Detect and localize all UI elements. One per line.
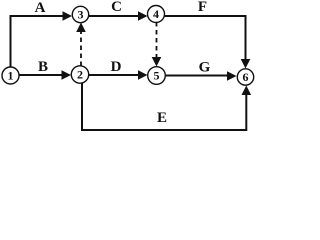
svg-text:4: 4	[153, 7, 159, 21]
node 5	[148, 67, 166, 85]
wire edge E (node 2 down, right along bottom, up to node 6)	[82, 84, 251, 131]
wire edge C (node 3 to node 4)	[89, 11, 148, 21]
node 3	[72, 6, 88, 22]
svg-text:6: 6	[243, 70, 249, 84]
svg-text:C: C	[111, 0, 122, 15]
dashed dummy wire node 4 to node 5	[152, 22, 162, 67]
svg-text:A: A	[35, 0, 46, 16]
svg-text:2: 2	[77, 68, 83, 82]
wire edge G (node 5 to node 6)	[166, 71, 237, 81]
svg-text:G: G	[199, 60, 211, 76]
node 2	[71, 66, 88, 83]
svg-text:F: F	[198, 0, 207, 15]
svg-text:B: B	[38, 59, 48, 75]
node 4	[148, 6, 165, 23]
svg-text:3: 3	[78, 8, 84, 22]
wire edge B (node 1 to node 2)	[20, 70, 72, 80]
svg-text:5: 5	[154, 69, 160, 83]
svg-text:D: D	[111, 59, 122, 75]
wire edge D (node 2 to node 5)	[89, 70, 148, 80]
wire edge A (node 1 up and right to node 3)	[11, 11, 73, 68]
node 6	[237, 69, 253, 85]
svg-text:1: 1	[8, 69, 14, 83]
wire edge F (node 4 right then down to node 6)	[165, 16, 251, 69]
svg-text:E: E	[157, 110, 167, 126]
dashed dummy wire node 2 to node 3	[76, 23, 86, 67]
node 1	[2, 67, 19, 84]
